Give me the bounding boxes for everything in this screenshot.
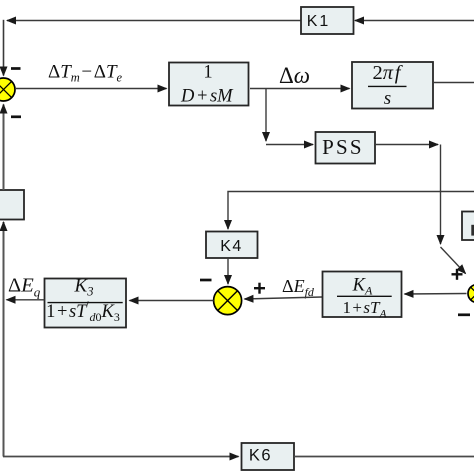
block PSS (316, 132, 376, 164)
plus sign at S2 right input (254, 283, 265, 294)
wire block1 to block 2pif/s (250, 88, 350, 90)
label dOmega (279, 63, 310, 88)
svg-text:D + sM: D + sM (180, 87, 234, 107)
minus sign at S3 bottom input (458, 313, 470, 316)
svg-text:1 + sT′d0K3: 1 + sT′d0K3 (46, 300, 120, 325)
wire K3 output to left feedback line (7, 299, 45, 301)
block K1 (301, 7, 354, 34)
svg-text:2π f: 2π f (373, 62, 404, 84)
svg-text:Δω: Δω (279, 63, 310, 88)
wire delta feed from right edge to K4 (228, 192, 474, 230)
wire 2pif/s output to right edge (433, 82, 474, 84)
wire KA output to S2 (245, 297, 323, 299)
minus sign at S1 top input (11, 67, 21, 70)
wire K4 to summing junction S2 (227, 258, 229, 284)
svg-text:ΔTm − ΔTe: ΔTm − ΔTe (48, 62, 123, 85)
block 1/(D+sM) (169, 62, 249, 106)
block K2 (partial, left edge) (0, 190, 24, 220)
svg-text:K6: K6 (249, 447, 272, 465)
block K5 (partial, right edge) (462, 212, 474, 241)
wire K2 output up into S1 (3, 105, 5, 191)
plus sign at S3 diagonal input (452, 269, 463, 280)
svg-text:K4: K4 (220, 238, 243, 255)
summing junction S1 (left) (0, 78, 15, 101)
wire S3 to KA input (405, 293, 467, 296)
wire PSS output to corner (375, 144, 438, 146)
wire K1 feedback input from right edge (355, 20, 474, 22)
wire PSS corner down (440, 145, 442, 245)
svg-text:PSS: PSS (322, 135, 364, 159)
wire K1 output to top-left corner (7, 20, 301, 22)
wire top-left vertical into summing junction S1 (3, 20, 5, 76)
wire S1 to block 1/(D+sM) (15, 88, 167, 90)
wire S2 output to K3 block (130, 300, 214, 302)
svg-text:1: 1 (203, 62, 212, 82)
svg-text:s: s (384, 88, 391, 109)
wire bottom feedback up into K2 (3, 222, 5, 457)
summing junction S2 (middle) (214, 287, 242, 315)
block K6 (242, 443, 295, 470)
minus sign at S1 bottom input (11, 115, 21, 118)
block K3/(1+sT'd0K3) (45, 276, 127, 328)
summing junction S3 (right edge) (468, 285, 474, 303)
wire branch corner to PSS input (266, 144, 313, 146)
label dTm - dTe (48, 62, 123, 85)
wire branch down to PSS (265, 89, 267, 142)
svg-text:K1: K1 (307, 13, 331, 30)
label dEfd (282, 276, 315, 299)
minus sign at S2 top input (200, 279, 212, 282)
block KA/(1+sTA) (323, 272, 402, 321)
block K4 (206, 232, 258, 259)
block 2pif/s (352, 62, 433, 109)
wire K6 output to right edge (294, 456, 474, 458)
label dEq (8, 275, 41, 300)
wire bottom feedback line to K6 (3, 456, 239, 458)
wire diagonal into summing junction S3 (441, 247, 466, 274)
